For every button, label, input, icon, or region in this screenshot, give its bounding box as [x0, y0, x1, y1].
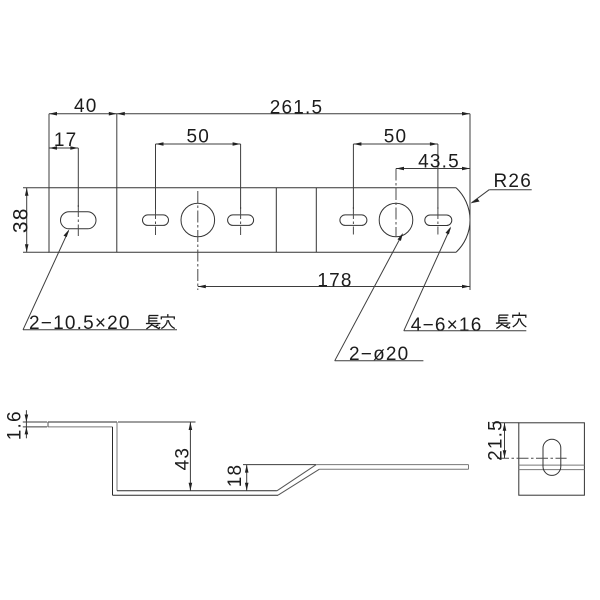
ext 38 top: [23, 187, 49, 189]
arrows 1.6 outside: [25, 415, 29, 423]
kanji naga: [146, 316, 161, 330]
arrows 21.5: [503, 423, 507, 431]
ext line x=116.8: [116, 114, 118, 188]
left flange bottom surface: [48, 426, 113, 428]
diagonal lower: [278, 469, 319, 495]
dim 1.6 vertical: [25, 410, 27, 438]
ext slot g1 right upper: [240, 144, 242, 209]
end view square: [519, 423, 585, 495]
arrows 17: [49, 146, 57, 150]
centerline slot g2 left lower: [352, 207, 354, 235]
svg-text:43.5: 43.5: [418, 152, 460, 173]
leader label1: [23, 231, 69, 330]
ext slot 10.5x20 upper: [77, 148, 79, 207]
dim line 50 left: [156, 143, 241, 145]
svg-text:R26: R26: [494, 171, 532, 192]
leader2 arrow: [398, 233, 404, 241]
arrows 178: [198, 285, 206, 289]
arrows 50 right: [353, 142, 361, 146]
centerlines dash-dot: [78, 169, 438, 291]
arrows 261.5: [117, 112, 125, 116]
flange edge line upper: [519, 464, 585, 466]
dim line 178: [198, 286, 470, 288]
svg-text:178: 178: [317, 270, 352, 291]
bottom run top line: [117, 490, 277, 492]
left flange top surface: [48, 421, 117, 423]
svg-text:1.6: 1.6: [5, 410, 26, 440]
diagonal upper: [277, 465, 316, 491]
wall outer line: [116, 422, 118, 491]
slot 6x16 group1 left: [143, 215, 169, 226]
ext 1.6 bottom: [23, 426, 47, 428]
centerline slot g1 right lower: [240, 207, 242, 235]
dim line 43.5: [396, 168, 470, 170]
right flange top line: [316, 464, 468, 466]
arrows 18: [245, 465, 249, 473]
arrows 40: [49, 112, 57, 116]
leader3 arrow: [446, 227, 452, 235]
dim 18 vertical: [246, 465, 248, 491]
horizontal centerline end view: [497, 457, 567, 459]
bottom run bottom line: [113, 494, 279, 496]
right flange bottom line: [319, 468, 468, 470]
ext 38 bottom: [23, 251, 49, 253]
svg-text:261.5: 261.5: [270, 97, 324, 118]
slot 6x16 group1 right: [228, 215, 254, 226]
ext slot g2 right upper: [437, 144, 439, 209]
R26 underline: [489, 189, 532, 191]
circle phi20 right: [379, 203, 413, 237]
dim line 17: [49, 147, 78, 149]
svg-text:38: 38: [10, 207, 33, 233]
ext 21.5 top: [492, 422, 519, 424]
svg-text:50: 50: [384, 127, 408, 148]
ext slot g2 left upper: [352, 144, 354, 209]
bend line at x=116.8: [116, 188, 118, 252]
ext 1.6 top: [23, 421, 47, 423]
plate outline with R26 right end: [49, 188, 470, 252]
dimension lines and extension lines: [23, 114, 470, 290]
left flange end cap: [47, 422, 49, 427]
arrows 50 left: [156, 142, 164, 146]
bend line at x=276.3: [275, 188, 277, 252]
dim line 50 right: [353, 143, 438, 145]
arrows 43: [189, 422, 193, 430]
R26 leader arrow: [471, 199, 480, 204]
svg-text:17: 17: [54, 130, 78, 151]
circle phi20 left: [181, 203, 215, 237]
svg-text:21.5: 21.5: [486, 419, 507, 461]
R26 leader: [472, 190, 490, 203]
centerline circle left: [197, 191, 199, 290]
svg-text:18: 18: [225, 464, 246, 488]
ext line right end: [469, 114, 471, 290]
ext line left edge: [48, 114, 50, 188]
slot 6x16 group2 right: [425, 215, 452, 226]
leader label2: [335, 234, 403, 360]
leader1 arrow: [64, 229, 70, 237]
bend line at x=316.3: [315, 188, 317, 252]
leader label3: [404, 228, 451, 331]
centerline slot g2 right lower: [437, 207, 439, 235]
svg-text:40: 40: [74, 96, 98, 117]
dim 21.5 vertical: [504, 423, 506, 459]
kanji ana2: [513, 312, 527, 327]
kanji ana: [161, 314, 175, 329]
centerline circle right: [395, 169, 397, 238]
right flange end cap: [468, 465, 470, 470]
arrows 43.5: [396, 167, 404, 171]
centerline slot 10.5x20 lower: [77, 205, 79, 236]
svg-text:4−6×16: 4−6×16: [411, 315, 483, 336]
slot 10.5x20 left: [61, 212, 97, 229]
flange edge line lower: [519, 469, 585, 471]
slot 6x16 group2 left: [340, 215, 367, 226]
underline label2: [335, 360, 424, 362]
kanji naga2: [496, 315, 511, 329]
arrowheads top view: [25, 112, 470, 288]
ext slot g1 left upper: [155, 144, 157, 209]
ext 43 top: [118, 421, 196, 423]
arrows 38: [25, 188, 29, 196]
ext 18 top: [243, 464, 316, 466]
svg-text:2−ø20: 2−ø20: [349, 344, 409, 365]
dim 38 vertical: [26, 188, 28, 252]
vertical slot in end view: [543, 439, 561, 475]
underline label3: [404, 330, 527, 332]
svg-text:43: 43: [173, 447, 194, 471]
svg-text:2−10.5×20: 2−10.5×20: [29, 313, 131, 334]
underline label1: [23, 329, 177, 331]
centerline slot g1 left lower: [155, 207, 157, 235]
svg-text:50: 50: [187, 127, 211, 148]
dim line 40 / 261.5: [49, 113, 470, 115]
dim 43 vertical: [189, 422, 191, 491]
wall inner line: [112, 427, 114, 495]
